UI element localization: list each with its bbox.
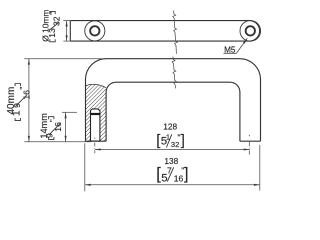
svg-text:[: [	[156, 133, 160, 149]
svg-text:": "	[48, 12, 58, 15]
svg-text:": "	[48, 119, 58, 122]
svg-text:]: ]	[184, 165, 189, 183]
svg-text:32: 32	[52, 16, 62, 26]
svg-text:16: 16	[53, 122, 63, 132]
svg-text:9: 9	[12, 103, 22, 108]
svg-text:7: 7	[167, 166, 172, 176]
svg-text:128: 128	[163, 122, 177, 132]
svg-text:]: ]	[181, 133, 185, 149]
svg-text:1: 1	[10, 110, 22, 116]
svg-text:138: 138	[164, 156, 178, 166]
svg-text:": "	[18, 87, 28, 90]
svg-text:13: 13	[47, 28, 57, 38]
svg-text:16: 16	[22, 90, 32, 100]
svg-text:9: 9	[45, 133, 55, 138]
